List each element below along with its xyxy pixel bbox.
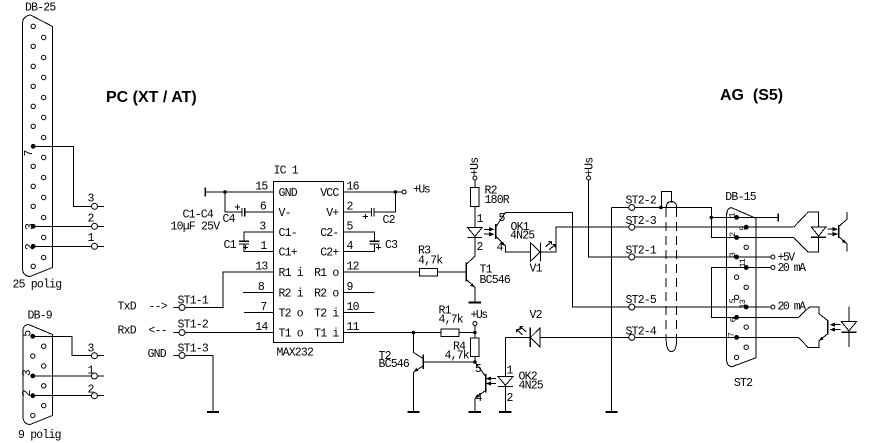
svg-text:T2 i: T2 i (314, 308, 339, 321)
svg-text:11: 11 (738, 258, 748, 267)
svg-text:ST1-1: ST1-1 (178, 295, 209, 308)
svg-text:25 polig: 25 polig (13, 279, 62, 292)
svg-text:11: 11 (347, 321, 360, 334)
svg-text:2: 2 (728, 232, 738, 237)
svg-text:DB-15: DB-15 (725, 191, 756, 204)
svg-text:5: 5 (475, 363, 482, 376)
svg-text:3: 3 (728, 252, 738, 257)
svg-text:1: 1 (727, 213, 737, 218)
svg-text:4: 4 (476, 392, 483, 405)
svg-text:DB-9: DB-9 (28, 310, 53, 323)
svg-text:3: 3 (259, 221, 266, 234)
svg-text:IC 1: IC 1 (274, 165, 299, 178)
svg-text:ST2: ST2 (734, 377, 753, 390)
svg-text:C1: C1 (224, 239, 237, 252)
svg-text:ST1-2: ST1-2 (178, 319, 209, 332)
svg-text:R2 i: R2 i (279, 288, 304, 301)
svg-text:DB-25: DB-25 (25, 2, 56, 15)
svg-text:9 polig: 9 polig (18, 429, 61, 442)
svg-text:2: 2 (507, 392, 514, 405)
svg-text:4: 4 (497, 242, 504, 255)
svg-text:C3: C3 (385, 239, 398, 252)
svg-text:+Us: +Us (469, 158, 482, 176)
svg-text:ST1-3: ST1-3 (178, 343, 209, 356)
svg-text:20 mA: 20 mA (778, 301, 807, 314)
svg-text:1: 1 (88, 232, 95, 245)
svg-text:2: 2 (477, 241, 484, 254)
svg-text:9: 9 (347, 281, 354, 294)
svg-text:V-: V- (279, 207, 291, 220)
svg-text:+Us: +Us (471, 309, 488, 322)
svg-text:10µF 25V: 10µF 25V (171, 221, 221, 234)
svg-text:3: 3 (21, 369, 34, 376)
svg-text:C2+: C2+ (320, 247, 339, 260)
svg-text:BC546: BC546 (480, 274, 511, 287)
svg-text:3: 3 (24, 223, 37, 230)
svg-text:T2 o: T2 o (279, 308, 304, 321)
svg-text:2: 2 (347, 201, 354, 214)
svg-text:VCC: VCC (320, 187, 339, 200)
svg-text:V1: V1 (530, 263, 543, 276)
svg-text:8: 8 (258, 281, 265, 294)
svg-text:2: 2 (21, 390, 34, 397)
svg-text:+Us: +Us (413, 184, 430, 197)
svg-text:7: 7 (727, 332, 737, 337)
svg-text:ST2-4: ST2-4 (626, 326, 657, 339)
svg-text:GND: GND (279, 187, 298, 200)
svg-text:4,7k: 4,7k (418, 255, 443, 268)
svg-text:<--: <-- (149, 325, 167, 338)
svg-text:2: 2 (88, 213, 95, 226)
svg-text:4N25: 4N25 (510, 230, 535, 243)
svg-text:10: 10 (347, 301, 360, 314)
svg-text:20 mA: 20 mA (778, 262, 807, 275)
svg-text:C4: C4 (223, 213, 236, 226)
svg-text:3: 3 (88, 343, 95, 356)
svg-text:13: 13 (255, 261, 268, 274)
svg-text:5: 5 (347, 221, 354, 234)
svg-text:1: 1 (477, 213, 484, 226)
svg-text:14: 14 (255, 321, 268, 334)
svg-text:7: 7 (23, 150, 36, 156)
svg-text:ST2-3: ST2-3 (626, 215, 657, 228)
svg-text:PC (XT / AT): PC (XT / AT) (106, 89, 197, 106)
svg-text:T1 o: T1 o (279, 328, 304, 341)
svg-text:5: 5 (499, 212, 506, 225)
svg-text:C2-: C2- (320, 227, 338, 240)
svg-text:C2: C2 (383, 214, 396, 227)
svg-text:TxD: TxD (118, 301, 137, 314)
svg-text:4,7k: 4,7k (445, 350, 470, 363)
svg-text:1: 1 (88, 365, 95, 378)
svg-text:MAX232: MAX232 (277, 347, 315, 360)
svg-text:ST2-1: ST2-1 (626, 244, 657, 257)
svg-text:GND: GND (148, 348, 167, 361)
svg-text:5: 5 (21, 330, 34, 337)
svg-text:2: 2 (24, 243, 37, 250)
svg-text:4,7k: 4,7k (439, 314, 464, 327)
svg-text:9: 9 (738, 226, 748, 231)
svg-text:R1 o: R1 o (314, 267, 339, 280)
svg-text:1: 1 (260, 240, 267, 253)
svg-text:RxD: RxD (118, 325, 137, 338)
svg-text:12: 12 (347, 261, 360, 274)
svg-text:5: 5 (728, 298, 738, 303)
svg-text:7: 7 (260, 301, 266, 314)
svg-text:T1 i: T1 i (314, 328, 339, 341)
svg-text:2: 2 (88, 384, 95, 397)
svg-text:ST2-2: ST2-2 (626, 195, 657, 208)
svg-text:1: 1 (507, 365, 514, 378)
svg-text:180R: 180R (485, 194, 510, 207)
svg-text:C1-: C1- (279, 227, 297, 240)
svg-text:R2 o: R2 o (314, 288, 339, 301)
svg-text:ST2-5: ST2-5 (626, 294, 657, 307)
svg-text:BC546: BC546 (379, 358, 410, 371)
svg-text:6: 6 (729, 317, 739, 322)
svg-text:R1 i: R1 i (279, 267, 304, 280)
svg-text:-->: --> (149, 301, 168, 314)
svg-text:15: 15 (255, 181, 268, 194)
svg-text:V+: V+ (326, 207, 339, 220)
svg-text:C1+: C1+ (279, 247, 298, 260)
svg-text:+Us: +Us (583, 158, 596, 176)
svg-text:13: 13 (738, 299, 748, 308)
svg-text:16: 16 (347, 181, 360, 194)
svg-text:3: 3 (88, 193, 95, 206)
svg-text:4N25: 4N25 (519, 380, 544, 393)
svg-text:AG (S5): AG (S5) (720, 87, 783, 104)
svg-text:4: 4 (347, 240, 354, 253)
svg-text:6: 6 (260, 201, 267, 214)
svg-text:V2: V2 (530, 309, 543, 322)
